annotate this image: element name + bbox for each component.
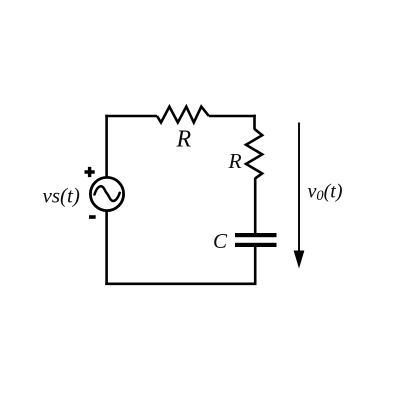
- svg-text:R: R: [176, 127, 192, 153]
- plus polarity mark: [85, 167, 95, 177]
- wire bottom horizontal segment: [105, 282, 256, 285]
- voltage source VS (AC source circle): [90, 177, 123, 210]
- sine wave symbol inside source: [95, 186, 120, 201]
- wire top-left horizontal segment: [105, 115, 157, 118]
- wire below capacitor: [254, 247, 257, 286]
- svg-text:v0(t): v0(t): [308, 180, 343, 204]
- svg-text:C: C: [213, 229, 228, 253]
- minus polarity mark: [89, 215, 96, 219]
- capacitor C1 bottom plate: [235, 243, 277, 247]
- arrow v0(t) output voltage direction: [298, 123, 300, 253]
- wire left vertical upper segment: [105, 115, 108, 177]
- svg-text:vs(t): vs(t): [43, 184, 80, 208]
- arrowhead: [294, 251, 305, 269]
- wire top-right horizontal segment: [209, 115, 256, 118]
- wire between R2 and capacitor: [254, 178, 257, 233]
- svg-text:R: R: [228, 149, 242, 173]
- wire left vertical lower segment: [105, 211, 108, 285]
- resistor R2 (right vertical zigzag): [246, 129, 262, 179]
- resistor R1 (top horizontal zigzag): [157, 107, 209, 123]
- wire right vertical stub above R2: [253, 115, 256, 130]
- capacitor C1 top plate: [235, 233, 277, 237]
